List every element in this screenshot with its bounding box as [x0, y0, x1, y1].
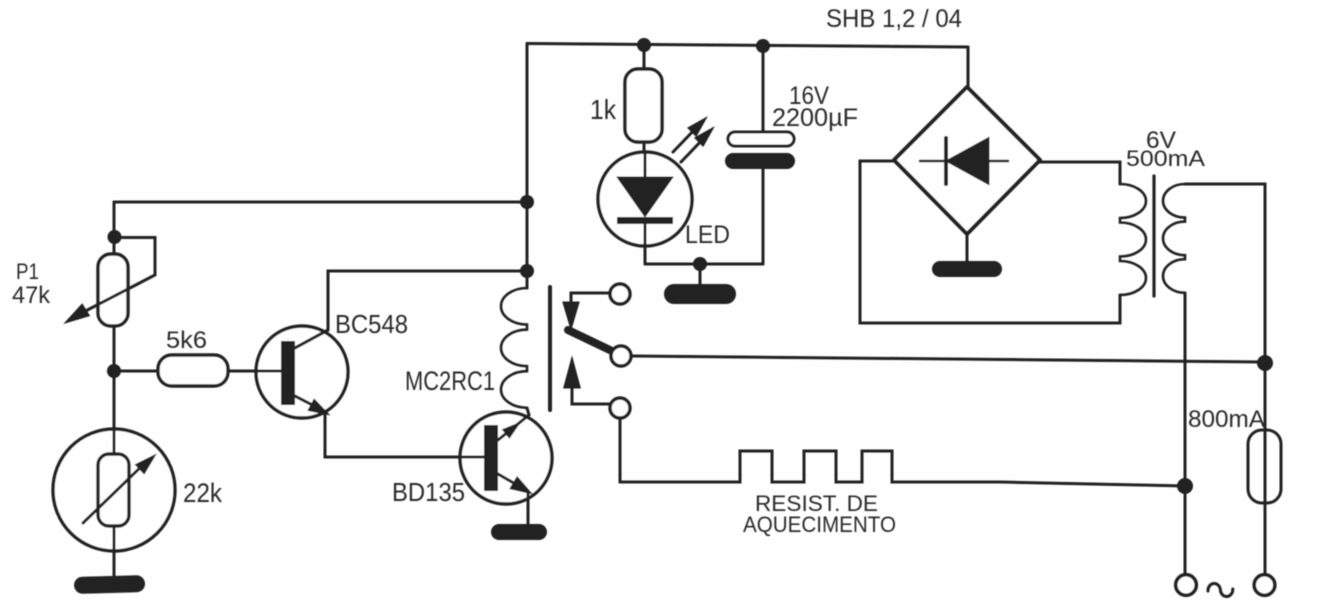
- junction node at 1k top: [637, 38, 651, 52]
- relay lower arrow: [565, 361, 579, 387]
- LED cathode bar: [617, 217, 673, 224]
- bridge diode triangle: [948, 139, 988, 183]
- BD135 emitter line: [498, 474, 524, 489]
- heating resistor element: [620, 451, 1185, 486]
- junction node heater right: [1177, 478, 1193, 494]
- terminal AC left: [1176, 575, 1197, 596]
- capacitor bottom lead: [762, 169, 765, 264]
- junction node at capacitor top: [756, 39, 770, 53]
- wire through fuse to terminal: [1264, 363, 1267, 573]
- svg-text:2200µF: 2200µF: [772, 104, 858, 132]
- BC548 emitter arrowhead: [310, 401, 326, 413]
- svg-text:800mA: 800mA: [1188, 406, 1265, 433]
- ground bar under 22k: [74, 575, 145, 594]
- ground bar under LED: [664, 284, 736, 304]
- wire P1 bottom lead: [113, 326, 116, 429]
- P1 wiper wire: [74, 238, 155, 318]
- wire main vertical rail to relay coil: [526, 44, 529, 289]
- svg-text:BC548: BC548: [335, 309, 408, 339]
- junction node base divider: [107, 364, 121, 378]
- wire secondary top to fuse column: [1185, 184, 1265, 363]
- junction node P1 wiper tap: [108, 230, 122, 244]
- relay armature arm: [568, 330, 614, 352]
- transistor BC548 circle: [256, 326, 348, 418]
- svg-text:5k6: 5k6: [166, 327, 207, 354]
- svg-text:MC2RC1: MC2RC1: [405, 366, 495, 396]
- wire BD135 emitter to ground: [527, 492, 530, 524]
- BD135 emitter arrowhead: [512, 479, 529, 493]
- 22k arrow line: [83, 462, 146, 523]
- relay top contact wire: [571, 293, 610, 303]
- transformer core: [1152, 176, 1155, 296]
- transistor BD135 circle: [460, 412, 552, 504]
- relay top arrow: [564, 303, 578, 326]
- relay top contact circle: [610, 284, 630, 304]
- svg-text:P1: P1: [16, 259, 39, 284]
- junction node coil top: [520, 264, 534, 278]
- resistor 1k: [625, 69, 662, 142]
- svg-text:AQUECIMENTO: AQUECIMENTO: [743, 512, 896, 537]
- svg-text:47k: 47k: [12, 282, 51, 309]
- wire BC548 collector up: [328, 271, 527, 330]
- LED anode lead: [644, 152, 647, 179]
- wire top supply rail: [527, 44, 968, 48]
- bridge rectifier diamond: [894, 87, 1040, 234]
- LED cathode lead: [644, 224, 647, 264]
- svg-text:500mA: 500mA: [1126, 146, 1205, 171]
- wire relay common to fuse node: [632, 356, 1265, 362]
- relay bottom contact circle: [610, 398, 630, 418]
- LED triangle: [619, 178, 671, 215]
- capacitor top lead: [762, 46, 765, 133]
- wire to 5k6: [114, 370, 158, 373]
- capacitor C1 bottom plate: [725, 153, 795, 169]
- junction node LED/cap ground: [693, 257, 707, 271]
- wire P1 top lead: [113, 202, 116, 254]
- wire relay bottom contact down: [619, 418, 622, 482]
- wire bridge top lead: [967, 47, 970, 90]
- capacitor C1 top plate: [728, 132, 794, 146]
- BC548 collector line: [293, 330, 328, 349]
- junction node rail y202: [520, 195, 534, 209]
- ground stem under LED: [699, 264, 702, 285]
- 22k resistor body: [98, 454, 129, 526]
- relay core bar: [548, 287, 552, 410]
- relay coil MC2RC1: [501, 288, 527, 408]
- wire BC548 emitter to BD135 base: [325, 412, 484, 457]
- svg-text:SHB 1,2 / 04: SHB 1,2 / 04: [826, 5, 962, 33]
- wire horizontal y202: [114, 201, 527, 204]
- wire 5k6 to BC548 base: [228, 370, 281, 373]
- BC548 base bar: [281, 341, 295, 405]
- svg-text:BD135: BD135: [392, 477, 465, 507]
- potentiometer P1 body: [98, 254, 128, 326]
- ground bar under BD135: [491, 524, 547, 540]
- 22k inner lead bottom: [113, 526, 116, 577]
- BD135 base bar: [484, 425, 498, 491]
- relay lower arrow stem: [572, 387, 610, 404]
- svg-text:22k: 22k: [183, 478, 222, 508]
- bridge diode horizontal line: [920, 160, 1008, 163]
- transformer primary coil: [1120, 184, 1146, 295]
- LED light arrow 1: [673, 127, 697, 152]
- LED circle: [598, 152, 692, 246]
- bridge diode cathode bar: [944, 138, 948, 184]
- LED light arrow 2: [681, 137, 705, 162]
- relay common contact circle: [611, 346, 631, 366]
- wire secondary bottom down: [1184, 293, 1187, 575]
- wire 1k to LED: [643, 142, 646, 153]
- 22k inner lead top: [113, 429, 116, 454]
- wire bridge left AC loop to primary bottom: [860, 161, 1120, 323]
- svg-text:1k: 1k: [590, 94, 617, 125]
- BC548 emitter line: [293, 395, 322, 410]
- thermistor 22k circle: [53, 429, 175, 551]
- wire bridge right output to primary top: [1040, 162, 1120, 184]
- fuse 800mA body: [1248, 430, 1281, 503]
- BD135 collector line: [498, 408, 529, 440]
- BD135 collector arrowhead: [504, 425, 517, 436]
- 22k arrowhead: [137, 457, 153, 472]
- transformer secondary coil: [1163, 184, 1185, 293]
- terminal AC right: [1254, 575, 1275, 596]
- wire LED to capacitor bottom: [645, 263, 763, 266]
- ground bar under bridge: [932, 261, 1002, 277]
- wire 1k top lead: [643, 45, 646, 70]
- AC tilde symbol: [1208, 583, 1233, 596]
- junction node relay common / fuse: [1257, 355, 1273, 371]
- svg-text:LED: LED: [685, 221, 730, 249]
- resistor 5k6: [158, 355, 228, 386]
- wire bridge bottom to ground: [966, 234, 969, 261]
- P1 wiper arrowhead: [68, 306, 88, 321]
